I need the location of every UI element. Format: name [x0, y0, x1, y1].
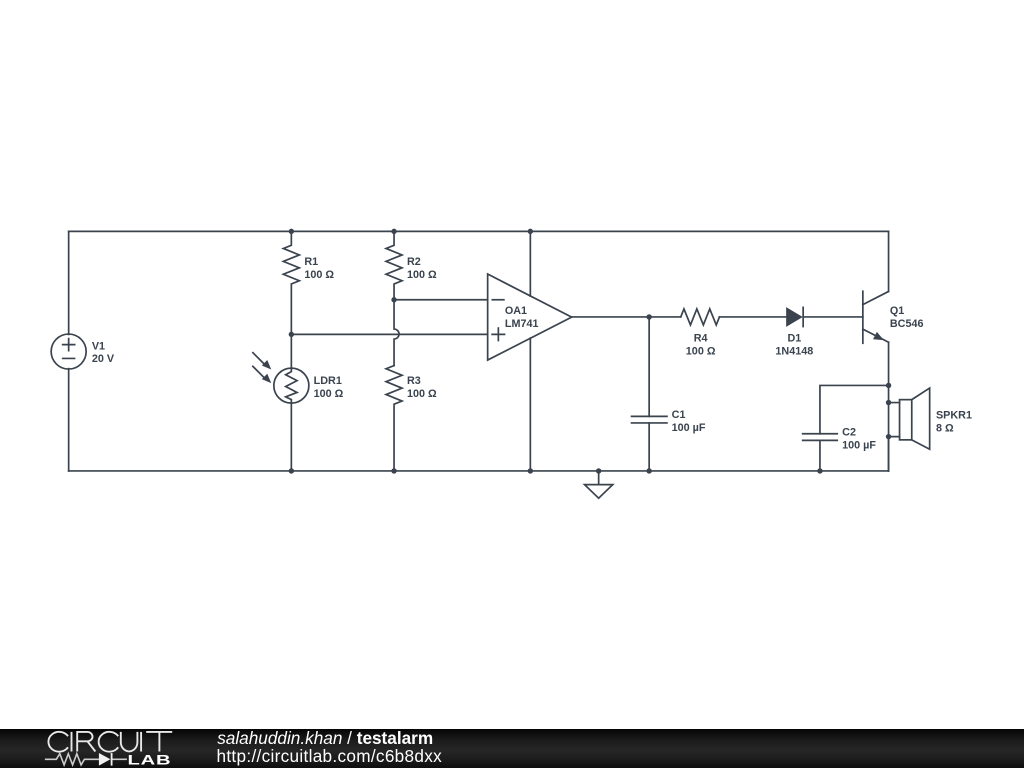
- svg-text:LAB: LAB: [128, 751, 172, 767]
- junction top rail R2: [391, 229, 396, 234]
- logo resistor zigzag and wires: [45, 754, 127, 765]
- op-amp OA1: [488, 274, 572, 360]
- logo diode triangle: [99, 753, 111, 766]
- junction bottom rail op-amp V-: [528, 468, 533, 473]
- wire op-amp V+ supply pin to top rail: [529, 231, 531, 296]
- wire top rail: [69, 230, 889, 232]
- wire node B down to R3 with hop over crossing wire: [394, 300, 399, 366]
- wire output node down to C1: [648, 317, 650, 416]
- junction bottom rail ground: [596, 468, 601, 473]
- wire emitter node to C2: [820, 385, 889, 433]
- capacitor C2: [803, 434, 838, 471]
- wire bottom rail riser to speaker minus: [888, 437, 890, 471]
- speaker SPKR1: [889, 388, 930, 449]
- bottom watermark bar: [0, 729, 1024, 768]
- op-amp OA1 non-inverting pin plus marker: [492, 328, 504, 340]
- junction bottom rail C2: [817, 468, 822, 473]
- junction speaker minus stub: [886, 434, 891, 439]
- junction bottom rail R3: [391, 468, 396, 473]
- logo diode cathode bar: [111, 753, 113, 766]
- diode D1: [787, 307, 804, 326]
- capacitor C1: [632, 416, 667, 471]
- wire op-amp V- supply pin to bottom rail: [529, 338, 531, 471]
- junction node B R2 R3: [391, 297, 396, 302]
- voltage source V1: [51, 334, 86, 369]
- junction top rail R1: [289, 229, 294, 234]
- junction bottom rail LDR1: [289, 468, 294, 473]
- svg-text:http://circuitlab.com/c6b8dxx: http://circuitlab.com/c6b8dxx: [217, 746, 443, 766]
- wire bottom rail: [69, 470, 889, 472]
- light arrow 2 of LDR1: [253, 366, 271, 383]
- junction speaker plus stub: [886, 400, 891, 405]
- wire Q1 emitter down to bottom rail: [888, 342, 890, 471]
- junction emitter node C2 wire: [886, 383, 891, 388]
- wire V1 minus down to bottom rail: [68, 369, 70, 471]
- transistor Q1: [863, 291, 889, 343]
- resistor R3: [386, 366, 402, 471]
- wire R4 to D1 anode: [719, 316, 786, 318]
- wire op-amp output to R4: [572, 316, 681, 318]
- resistor R2: [386, 231, 402, 299]
- junction output node C1 branch: [646, 314, 651, 319]
- junction bottom rail C1: [646, 468, 651, 473]
- resistor R1: [283, 231, 299, 334]
- junction node A R1 LDR1: [289, 332, 294, 337]
- photoresistor LDR1: [274, 334, 309, 471]
- junction top rail op-amp V+: [528, 229, 533, 234]
- light arrow 1 of LDR1: [253, 353, 271, 370]
- resistor R4: [681, 309, 720, 325]
- CircuitLab logo CIRCUIT lettering: [48, 732, 172, 752]
- ground: [585, 471, 613, 498]
- svg-text:salahuddin.khan / testalarm: salahuddin.khan / testalarm: [217, 728, 433, 748]
- wire left rail V1 plus up to top rail: [68, 231, 70, 334]
- wire top rail drop to Q1 collector: [888, 231, 890, 291]
- wire node A to op-amp non-inverting input: [291, 333, 487, 335]
- op-amp OA1 inverting pin minus marker: [492, 299, 504, 301]
- wire node B to op-amp inverting input: [394, 299, 488, 301]
- wire D1 cathode to Q1 base: [803, 316, 863, 318]
